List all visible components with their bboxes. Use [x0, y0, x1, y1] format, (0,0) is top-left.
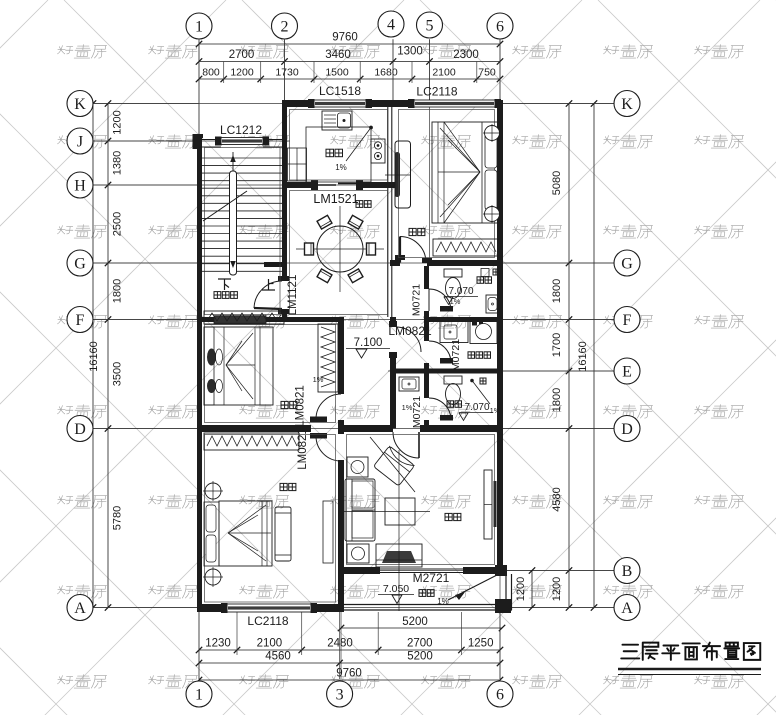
room inner outline kitchen [290, 110, 388, 181]
sofa side table 2 [347, 544, 369, 563]
window band in F wall at stairwell [214, 316, 266, 324]
washing machine [470, 320, 497, 344]
axis circle B right [614, 558, 640, 584]
svg-text:2480: 2480 [327, 638, 353, 650]
svg-text:2: 2 [281, 19, 289, 36]
svg-text:1700: 1700 [551, 333, 563, 357]
wall: right exterior (axis 6) [497, 100, 503, 574]
axis circle A left [67, 595, 93, 621]
svg-text:LM0821: LM0821 [388, 324, 432, 338]
svg-text:7.050: 7.050 [383, 583, 409, 595]
axis circle 5 top [417, 12, 443, 38]
room inner outline bedroom top-right [399, 110, 495, 258]
stair down 下 [218, 279, 231, 290]
bed top-right bedroom [432, 122, 500, 223]
svg-text:1730: 1730 [275, 67, 299, 79]
axis circle 2 top [272, 13, 298, 39]
door LM0821 bedroom bottom (axis3 wall) [316, 436, 341, 461]
svg-text:1200: 1200 [230, 67, 254, 79]
door arc hall to living room (D wall) [393, 432, 419, 458]
svg-text:A: A [621, 600, 633, 617]
bottom dimension chains [196, 612, 505, 683]
wall: H axis kitchen bottom [287, 182, 317, 188]
title underline [618, 668, 761, 671]
svg-text:1800: 1800 [551, 279, 563, 303]
TV cabinet bottom [376, 544, 422, 567]
window LC2118 top wall [414, 100, 495, 107]
svg-text:2500: 2500 [112, 212, 124, 236]
svg-text:2300: 2300 [453, 49, 479, 61]
axis grid lines [93, 40, 614, 679]
floor drain public bathroom leader [471, 379, 474, 382]
door arc bedroom top-right (G wall) [400, 237, 426, 263]
door M0721 public bathroom [429, 398, 451, 420]
svg-text:G: G [74, 256, 86, 273]
toilet public bathroom [444, 376, 462, 384]
room label public bath 公卫 [447, 401, 454, 408]
kitchen sink unit [322, 111, 352, 130]
svg-text:1%: 1% [437, 597, 449, 606]
bedposts top-right bedroom [485, 126, 500, 141]
top mark 顶 public bath [480, 378, 486, 384]
svg-text:E: E [622, 364, 632, 381]
dining table round [317, 226, 363, 272]
window LC1518 top wall [314, 100, 366, 107]
wardrobe middle bedroom vertical [318, 324, 338, 392]
svg-text:5: 5 [426, 18, 434, 35]
axis circle H left [67, 172, 93, 198]
dining chairs [367, 243, 376, 255]
room label living 客厅 [445, 513, 452, 520]
svg-text:G: G [621, 256, 633, 273]
wardrobe middle bedroom horizontal [204, 311, 284, 324]
svg-text:B: B [622, 563, 633, 580]
wall: J axis stairwell top parapet [193, 134, 198, 149]
door M0721 inner bathroom [429, 289, 451, 311]
kitchen counter edge [306, 127, 371, 182]
wall: axis 4 vertical lower thick [390, 317, 396, 327]
svg-text:3500: 3500 [112, 362, 124, 386]
stair up 上 [262, 279, 275, 290]
svg-text:1200: 1200 [551, 577, 563, 601]
svg-text:LM1121: LM1121 [287, 275, 299, 316]
svg-text:LC2118: LC2118 [416, 85, 457, 99]
svg-text:5200: 5200 [402, 616, 428, 628]
room label dining 餐厅 [356, 201, 363, 208]
wall: G axis bedroom bottom [390, 260, 400, 266]
room label bedroom bottom 卧室 [280, 483, 287, 490]
toilet inner bathroom [444, 269, 462, 277]
room inner outline stairwell [205, 148, 281, 315]
wall: axis 3 vertical [338, 317, 344, 394]
svg-text:1: 1 [195, 687, 203, 704]
svg-text:6: 6 [496, 687, 504, 704]
washbasin corridor [399, 377, 419, 391]
svg-text:LC1518: LC1518 [319, 84, 361, 98]
svg-text:M2721: M2721 [413, 571, 450, 585]
title 三层平面布置图 [621, 643, 760, 660]
window LC2118 bottom wall [227, 604, 311, 612]
sliding door LM1521 threshold [317, 184, 336, 186]
svg-text:7.070: 7.070 [448, 286, 473, 297]
svg-text:F: F [76, 312, 85, 329]
axis circle K left [67, 91, 93, 117]
svg-text:4560: 4560 [265, 651, 291, 663]
balcony local 1200 dimension [531, 571, 533, 608]
svg-text:LM0821: LM0821 [295, 385, 307, 427]
kitchen slope leader line [346, 128, 371, 162]
svg-text:1500: 1500 [325, 67, 349, 79]
furniture axis lines living room [341, 511, 430, 513]
wardrobe bottom bedroom [204, 433, 299, 450]
svg-text:1%: 1% [402, 403, 413, 412]
svg-text:M0721: M0721 [411, 284, 423, 316]
axis circle K right [614, 91, 640, 117]
svg-text:M0721: M0721 [411, 396, 423, 428]
svg-text:9760: 9760 [336, 668, 362, 680]
axis circle G right [614, 250, 640, 276]
wardrobe top-right bedroom [433, 239, 499, 256]
desk bottom bedroom [323, 501, 333, 563]
top dimension chain [196, 32, 503, 138]
svg-text:1300: 1300 [397, 46, 423, 58]
svg-text:LM1521: LM1521 [313, 192, 358, 206]
svg-text:4: 4 [387, 17, 395, 34]
svg-text:5780: 5780 [112, 506, 124, 530]
svg-text:1800: 1800 [551, 388, 563, 412]
svg-text:LC1212: LC1212 [220, 123, 262, 137]
svg-text:1200: 1200 [515, 577, 527, 601]
coffee table [385, 498, 415, 525]
bed middle bedroom [204, 327, 273, 405]
room label inner bath 内卫 [477, 277, 484, 284]
axis circle 3 bottom [327, 681, 353, 707]
wall: B axis living room bottom [341, 567, 380, 574]
svg-text:1250: 1250 [468, 638, 494, 650]
svg-text:H: H [74, 178, 86, 195]
top mark 顶 inner bath [493, 269, 499, 275]
axis circle 1 top [186, 13, 212, 39]
wall: bathroom block left vertical [424, 266, 429, 289]
wall: G axis stair stub [264, 262, 287, 267]
svg-text:1680: 1680 [374, 67, 398, 79]
axis circle J left [67, 128, 93, 154]
axis circle E right [614, 358, 640, 384]
svg-text:1%: 1% [335, 163, 347, 172]
room label balcony 阳台 [419, 590, 426, 597]
kitchen refrigerator [288, 148, 307, 181]
room label bedroom top-right 卧室 [409, 228, 416, 235]
washbasin inner bathroom [486, 295, 499, 313]
axis circle 1 bottom [186, 681, 212, 707]
svg-text:1380: 1380 [112, 151, 124, 175]
stair break line [203, 191, 247, 221]
wall: A axis bottom exterior [197, 604, 227, 612]
svg-text:1230: 1230 [205, 638, 231, 650]
left dimension chain [88, 100, 199, 610]
svg-text:7.070: 7.070 [464, 402, 489, 413]
wall: top exterior (K axis) [282, 100, 314, 107]
desk against axis4 wall [395, 141, 411, 208]
svg-text:800: 800 [202, 67, 220, 79]
svg-text:16160: 16160 [88, 341, 100, 372]
stair treads [202, 158, 282, 271]
svg-text:5200: 5200 [407, 651, 433, 663]
door M0721 laundry [429, 341, 451, 363]
wall: axis 4 vertical upper (double thin) [387, 107, 389, 317]
room inner outline dining [290, 191, 388, 315]
svg-text:1%: 1% [313, 375, 324, 384]
axis circle F left [67, 307, 93, 333]
svg-text:6: 6 [496, 19, 504, 36]
sofa side table 1 [347, 457, 368, 477]
bench beside bed [275, 507, 291, 561]
stair center stringer [230, 171, 237, 275]
room label stairwell 楼梯间 [214, 292, 221, 299]
floor drain inner bathroom [481, 269, 489, 277]
bedposts bottom bedroom [205, 483, 221, 499]
svg-text:K: K [74, 96, 86, 113]
svg-text:A: A [74, 600, 86, 617]
bed bottom bedroom [219, 501, 272, 566]
wall: axis 2 vertical kitchen/stairwell [282, 107, 287, 281]
svg-text:LM0821: LM0821 [297, 428, 309, 470]
svg-text:1: 1 [195, 19, 203, 36]
svg-text:2700: 2700 [229, 49, 255, 61]
svg-text:3: 3 [336, 687, 344, 704]
svg-text:750: 750 [478, 67, 496, 79]
svg-text:16160: 16160 [577, 341, 589, 372]
axis circle 4 top [378, 11, 404, 37]
room inner outline bedroom middle [205, 325, 336, 423]
svg-text:D: D [74, 421, 86, 438]
svg-text:D: D [621, 421, 633, 438]
balcony bottom railing [341, 604, 512, 606]
room inner outline bedroom bottom [205, 435, 336, 603]
svg-text:1800: 1800 [112, 279, 124, 303]
svg-text:K: K [621, 96, 633, 113]
door LM0821 corridor (axis4 wall) [396, 327, 421, 352]
svg-text:1%: 1% [450, 297, 461, 306]
svg-text:1200: 1200 [112, 110, 124, 134]
svg-text:J: J [77, 134, 83, 151]
window LC1212 stairwell [221, 138, 263, 145]
door LM0821 bedroom middle (axis3 wall) [316, 394, 341, 419]
wall: D axis [197, 425, 311, 432]
svg-text:3460: 3460 [325, 49, 351, 61]
svg-text:7.100: 7.100 [354, 337, 383, 349]
dark sliding panel at axis4 wall [395, 152, 401, 197]
laundry sink unit [440, 322, 468, 343]
room inner outline living room [347, 435, 495, 565]
sofa two-seat [345, 479, 375, 541]
svg-text:M0721: M0721 [450, 339, 462, 371]
balcony corner post A6 [495, 599, 511, 613]
svg-text:9760: 9760 [332, 32, 358, 44]
axis circle G left [67, 250, 93, 276]
axis circle A right [614, 595, 640, 621]
wall: E axis [390, 369, 502, 374]
svg-text:2100: 2100 [432, 67, 456, 79]
svg-text:1%: 1% [490, 406, 501, 415]
svg-text:2100: 2100 [257, 638, 283, 650]
svg-text:LC2118: LC2118 [247, 614, 288, 628]
svg-text:F: F [623, 312, 632, 329]
wall: left exterior (axis 1) [197, 137, 202, 612]
right dimension chain [503, 100, 614, 610]
balcony corner column B6 [495, 565, 507, 576]
svg-text:2700: 2700 [407, 638, 433, 650]
axis circle D left [67, 416, 93, 442]
room label bedroom middle 卧室 [281, 401, 288, 408]
axis circle D right [614, 416, 640, 442]
axis circle F right [614, 307, 640, 333]
TV cabinet right wall [484, 470, 492, 539]
axis circle 6 bottom [487, 681, 513, 707]
room label laundry 洗衣房 [468, 352, 475, 359]
door LM1121 stairwell [254, 281, 282, 308]
room label kitchen 厨房 [326, 149, 334, 157]
axis circle 6 top [487, 13, 513, 39]
kitchen stove [371, 139, 385, 163]
armchair rotated [373, 446, 414, 486]
svg-text:4580: 4580 [551, 487, 563, 511]
balcony door M2721 [380, 568, 463, 570]
svg-text:5080: 5080 [551, 171, 563, 195]
wall: F axis [197, 317, 344, 322]
